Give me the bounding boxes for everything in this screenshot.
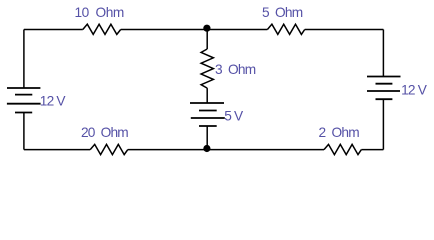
resistor 3 Ohm	[201, 49, 213, 88]
battery 5V middle	[190, 103, 225, 126]
wire bottom-left	[24, 149, 90, 151]
resistor 10 Ohm	[83, 24, 121, 34]
svg-text:2 Ohm: 2 Ohm	[319, 125, 360, 140]
svg-text:5 Ohm: 5 Ohm	[262, 5, 303, 20]
wire top-middle	[121, 29, 268, 31]
wire middle-mid	[206, 88, 208, 103]
wire left-vertical-bottom	[23, 113, 25, 150]
wire right-vertical-bottom	[382, 99, 384, 149]
wire top-left	[24, 29, 83, 31]
svg-text:10 Ohm: 10 Ohm	[75, 5, 124, 20]
wire top-right	[305, 29, 384, 31]
resistor 5 Ohm	[267, 24, 304, 34]
resistor 20 Ohm	[90, 144, 128, 154]
battery 12V left	[7, 88, 41, 113]
wire bottom-middle	[128, 149, 324, 151]
wire bottom-right	[361, 149, 383, 151]
node top junction	[203, 25, 210, 32]
wire middle-bottom	[206, 126, 208, 150]
resistor 2 Ohm	[324, 144, 361, 154]
wire right-vertical-top	[382, 30, 384, 77]
wire middle-top	[206, 30, 208, 50]
battery 12V right	[367, 77, 401, 100]
svg-text:12 V: 12 V	[401, 82, 428, 97]
svg-text:20 Ohm: 20 Ohm	[81, 125, 128, 140]
wire left-vertical-top	[23, 30, 25, 89]
svg-text:12 V: 12 V	[40, 94, 67, 109]
svg-text:5 V: 5 V	[224, 108, 244, 123]
node bottom junction	[203, 145, 210, 152]
svg-text:3 Ohm: 3 Ohm	[215, 62, 256, 77]
